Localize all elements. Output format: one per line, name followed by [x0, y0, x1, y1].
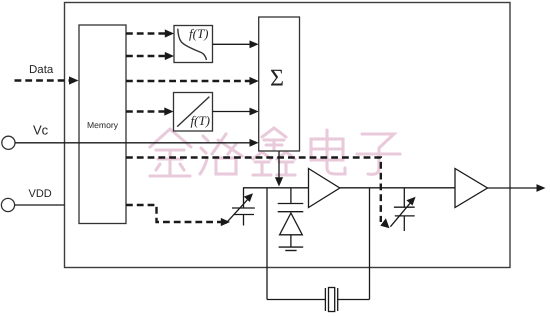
oscillator amplifier A1 [309, 169, 340, 208]
dian [311, 130, 345, 174]
varactor D1 [226, 188, 255, 226]
output buffer A2 [455, 169, 488, 208]
wire memory to F1 upper dashed [126, 29, 174, 37]
jin [150, 129, 191, 176]
summer U2 sigma [259, 17, 300, 151]
ground [279, 247, 304, 250]
wire F2 to summer [213, 108, 259, 116]
label f(T) on F1 [189, 26, 209, 41]
svg-text:Data: Data [29, 64, 54, 76]
input terminal Data [29, 64, 54, 76]
wire memory to F1 lower dashed [126, 52, 174, 60]
wire memory dashed control to varactor D2 [126, 158, 390, 229]
function block F1 f(T) cubic [174, 26, 213, 63]
wire VDD to chip [15, 204, 65, 206]
memory U1 [79, 25, 126, 224]
wire memory to summer dashed [126, 77, 259, 85]
label sigma [270, 66, 284, 92]
wire memory to F2 dashed [126, 107, 174, 115]
F1 compensation curve [178, 29, 207, 60]
wire Data dashed input [15, 76, 79, 84]
input terminal VDD [1, 198, 14, 211]
svg-text:VDD: VDD [29, 188, 52, 200]
F2 linear slope [177, 97, 209, 127]
wire summer output to oscillator [275, 151, 283, 187]
function block F2 f(T) linear [174, 93, 213, 132]
svg-text:Σ: Σ [270, 66, 284, 92]
wire memory dashed control to varactor D1 [126, 205, 230, 226]
luo [200, 134, 242, 174]
watermark [150, 128, 400, 176]
svg-text:Vc: Vc [33, 123, 49, 138]
varactor D2 [390, 188, 415, 231]
wire Vc to summer [15, 139, 259, 147]
label f(T) on F2 [191, 113, 211, 128]
xin [253, 128, 295, 175]
outer box [65, 3, 511, 268]
crystal Y1 loop [267, 188, 370, 300]
svg-text:Memory: Memory [87, 120, 119, 130]
input terminal Vc [2, 136, 15, 149]
wire output [488, 184, 546, 192]
wire F1 to summer [213, 40, 259, 48]
svg-text:f(T): f(T) [191, 113, 211, 128]
wire oscillator rail [243, 187, 455, 189]
svg-text:f(T): f(T) [189, 26, 209, 41]
label Memory [87, 120, 119, 130]
shunt capacitor C1 with varactor diode [278, 188, 304, 247]
crystal Y1 [325, 288, 337, 312]
zi [357, 134, 400, 174]
